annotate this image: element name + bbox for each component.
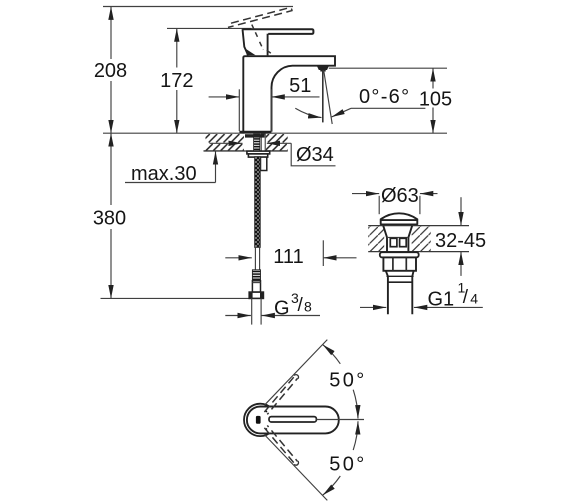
svg-text:Ø63: Ø63 xyxy=(381,185,419,207)
svg-text:50°: 50° xyxy=(329,369,366,391)
svg-text:4: 4 xyxy=(470,291,478,307)
svg-text:50°: 50° xyxy=(329,454,366,476)
svg-text:8: 8 xyxy=(304,298,312,314)
svg-text:111: 111 xyxy=(273,246,303,268)
svg-text:Ø34: Ø34 xyxy=(296,144,334,166)
svg-text:G: G xyxy=(274,298,290,320)
svg-text:max.30: max.30 xyxy=(131,163,197,185)
svg-text:0°-6°: 0°-6° xyxy=(359,86,410,108)
svg-text:105: 105 xyxy=(419,89,452,111)
svg-text:380: 380 xyxy=(93,208,126,230)
svg-text:32-45: 32-45 xyxy=(435,230,486,252)
svg-text:51: 51 xyxy=(289,75,311,97)
svg-text:208: 208 xyxy=(94,60,127,82)
svg-text:/: / xyxy=(463,287,469,308)
svg-text:G1: G1 xyxy=(428,289,455,311)
svg-text:/: / xyxy=(298,295,304,316)
svg-text:172: 172 xyxy=(160,70,193,92)
